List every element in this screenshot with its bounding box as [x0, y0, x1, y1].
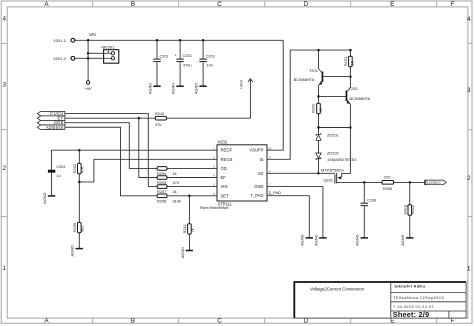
svg-text:BCW68HTA: BCW68HTA	[350, 96, 371, 101]
svg-text:11: 11	[268, 192, 271, 196]
svg-text:C203: C203	[206, 54, 215, 58]
svg-text:X201-2: X201-2	[53, 56, 67, 61]
svg-text:470u: 470u	[183, 64, 191, 68]
svg-text:R201: R201	[343, 57, 348, 66]
svg-text:VG: VG	[257, 171, 263, 176]
svg-text:REGF: REGF	[221, 148, 233, 153]
svg-text:2k: 2k	[190, 228, 195, 232]
svg-text:2k: 2k	[173, 189, 177, 194]
svg-text:+BV201: +BV201	[100, 44, 114, 49]
svg-text:10n: 10n	[207, 64, 213, 68]
svg-text:X201-1: X201-1	[53, 38, 67, 43]
svg-text:T202: T202	[349, 86, 358, 91]
svg-text:R206: R206	[383, 186, 392, 191]
svg-text:3: 3	[2, 82, 6, 89]
svg-text:Rset=Rset/Rifset: Rset=Rset/Rifset	[200, 206, 230, 210]
svg-text:18V: 18V	[89, 32, 97, 37]
svg-text:VIN: VIN	[221, 184, 228, 189]
svg-text:BCW68HTA: BCW68HTA	[294, 77, 315, 82]
svg-text:47k: 47k	[80, 167, 85, 173]
svg-text:AGND: AGND	[400, 234, 405, 245]
svg-text:Q201: Q201	[324, 177, 334, 182]
svg-text:R203: R203	[72, 164, 77, 173]
svg-text:R205: R205	[157, 180, 166, 185]
svg-text:D: D	[304, 318, 309, 325]
svg-text:R210: R210	[155, 111, 165, 116]
svg-text:R208: R208	[157, 198, 166, 203]
svg-text:C201: C201	[160, 54, 169, 58]
svg-text:C204: C204	[56, 165, 65, 169]
svg-text:C: C	[217, 318, 222, 325]
svg-text:TESsaNova,12Sep2013: TESsaNova,12Sep2013	[393, 296, 444, 300]
svg-text:B: B	[131, 318, 135, 325]
svg-text:EF: EF	[221, 175, 227, 180]
svg-text:1: 1	[467, 266, 471, 273]
svg-text:220: 220	[384, 175, 391, 180]
svg-text:AGND: AGND	[171, 83, 176, 94]
svg-text:REGS: REGS	[221, 157, 233, 162]
svg-text:4: 4	[2, 16, 6, 23]
svg-text:3: 3	[467, 87, 471, 94]
svg-text:teknoFil AdKu: teknoFil AdKu	[395, 284, 426, 288]
svg-text:D: D	[304, 1, 309, 8]
svg-text:AGND: AGND	[313, 234, 318, 245]
svg-text:F: F	[451, 318, 455, 325]
svg-text:R212: R212	[410, 205, 415, 214]
svg-text:1u: 1u	[56, 174, 60, 178]
svg-text:ADB646: ADB646	[46, 125, 64, 130]
svg-text:AGND: AGND	[147, 83, 152, 94]
svg-text:1: 1	[2, 265, 6, 272]
svg-text:IS: IS	[260, 157, 264, 162]
svg-text:+9V: +9V	[84, 86, 91, 91]
svg-text:T201: T201	[309, 68, 318, 73]
svg-text:R204: R204	[157, 171, 167, 176]
svg-text:1SMA5927BT3G: 1SMA5927BT3G	[327, 157, 356, 162]
svg-text:Sheet: 2/9: Sheet: 2/9	[393, 310, 429, 319]
svg-text:AGND: AGND	[180, 247, 185, 258]
svg-text:2: 2	[2, 165, 6, 172]
svg-text:ZD201: ZD201	[327, 132, 339, 137]
svg-text:AGND: AGND	[300, 234, 305, 245]
svg-text:2: 2	[467, 175, 471, 182]
svg-text:AGND: AGND	[194, 83, 199, 94]
svg-text:15: 15	[350, 61, 355, 65]
svg-text:F: F	[451, 1, 455, 8]
svg-text:470: 470	[173, 180, 180, 185]
svg-text:OD: OD	[221, 166, 227, 171]
svg-text:X202: X202	[218, 139, 228, 144]
svg-text:1Meg: 1Meg	[403, 205, 408, 215]
svg-text:Voltage2Current Conversion: Voltage2Current Conversion	[310, 287, 365, 292]
svg-text:47k: 47k	[155, 122, 161, 127]
svg-text:R209: R209	[72, 223, 77, 232]
svg-text:T_PAD: T_PAD	[250, 193, 263, 198]
svg-text:E: E	[390, 1, 394, 8]
svg-text:IOSEC: IOSEC	[427, 180, 441, 185]
svg-text:R211: R211	[182, 224, 187, 233]
svg-text:AGND: AGND	[70, 245, 75, 256]
svg-text:7,10,2013 01:22:47: 7,10,2013 01:22:47	[393, 305, 434, 309]
svg-text:AGND: AGND	[42, 192, 47, 203]
svg-text:SET: SET	[221, 193, 230, 198]
svg-text:10: 10	[268, 146, 271, 150]
svg-text:VSUPP: VSUPP	[249, 148, 263, 153]
svg-text:910k: 910k	[173, 198, 181, 203]
svg-text:4: 4	[467, 16, 471, 23]
svg-text:1k: 1k	[173, 171, 177, 176]
svg-text:AGND: AGND	[355, 234, 360, 245]
svg-text:GND: GND	[254, 184, 263, 189]
svg-text:R202: R202	[311, 104, 316, 113]
svg-text:9k1: 9k1	[80, 226, 85, 232]
svg-text:+: +	[175, 54, 177, 58]
svg-text:+3V3: +3V3	[240, 80, 244, 89]
svg-text:49: 49	[318, 108, 323, 112]
svg-text:ZD202: ZD202	[327, 151, 339, 156]
svg-text:C: C	[217, 1, 222, 8]
svg-text:B: B	[131, 1, 135, 8]
svg-text:R207: R207	[157, 189, 166, 194]
svg-text:C206: C206	[367, 198, 376, 202]
svg-text:C202: C202	[183, 54, 192, 58]
svg-text:MTP2P50EG: MTP2P50EG	[321, 167, 344, 172]
